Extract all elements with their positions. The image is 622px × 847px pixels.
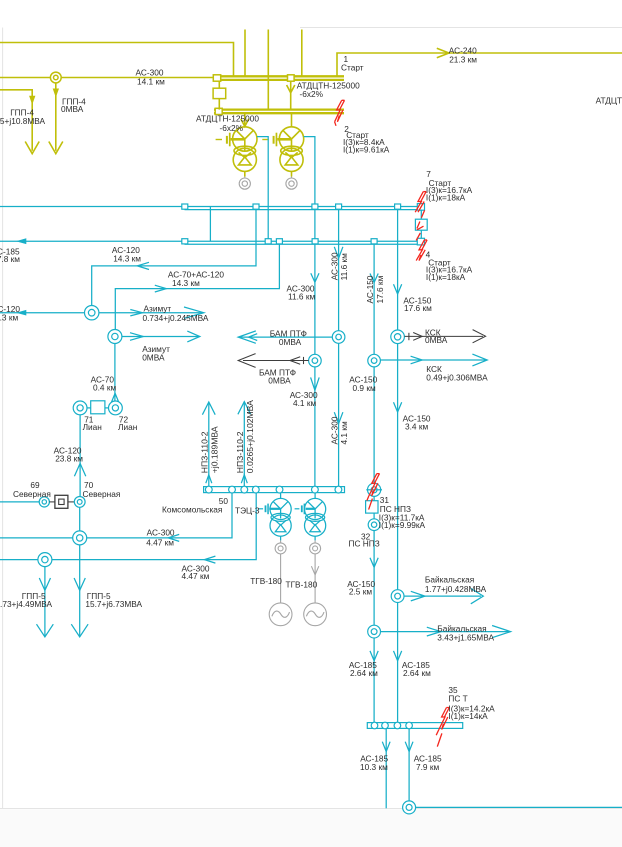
sheet frame border bottom: [0, 808, 622, 810]
svg-text:15.7+j6.73МВА: 15.7+j6.73МВА: [85, 599, 142, 609]
wire AC-150 2.5 / AC-185 2.64 line down to PS T bus: [373, 531, 375, 723]
wire AC-120 x.3 from left edge: [0, 312, 85, 314]
node squares on cyan bus 2: [182, 239, 188, 244]
wire cyan drop from U1 to cyan bus 2: [257, 137, 268, 240]
arrowhead AC-300 4.47-2 left: [204, 556, 215, 563]
svg-text:7.3 км: 7.3 км: [0, 313, 18, 323]
wire AC-300 4.47 line 2 from TEC bus down-left: [0, 493, 256, 560]
wire tie between cyan buses: [209, 207, 211, 242]
node tap Baikalskaya-1 (donut): [391, 590, 404, 603]
fault bolt through breaker box (dashed): [416, 210, 424, 240]
wire AC-150 17.6/3.4 line 2 from bus1 down: [397, 210, 399, 330]
svg-text:ТЭЦ-3: ТЭЦ-3: [235, 505, 260, 515]
load arrow NPZ-110-2 +j0.189MVA up: [208, 403, 210, 487]
switch box between 69 and 70 (black): [49, 501, 54, 503]
svg-text:17.6 км: 17.6 км: [375, 275, 385, 303]
node tap Azimut (donut): [85, 306, 99, 320]
svg-text:0МВА: 0МВА: [279, 337, 302, 347]
svg-text:4.47 км: 4.47 км: [182, 571, 210, 581]
svg-text:+j0.189МВА: +j0.189МВА: [209, 426, 219, 473]
load arrow BAM PTF 0MVA (black, left): [243, 360, 309, 362]
load arrow GPP-5 15.7+j6.73MVA: [79, 545, 81, 637]
busbar Komsomolskaya TEC-3: [204, 487, 345, 493]
node square on bus B left: [215, 108, 222, 114]
svg-text:7.9 км: 7.9 км: [416, 762, 439, 772]
wire AC-185 down from Baikalskaya-1 tap to PS T bus: [397, 603, 399, 723]
wire gray to generator G2 with arrow: [314, 554, 316, 603]
sheet frame bottom strip: [0, 810, 622, 847]
arrowhead AC-185 2.64-1 down: [370, 651, 378, 661]
svg-text:0.4 км: 0.4 км: [93, 383, 116, 393]
node tap KSK cyan (donut): [368, 354, 381, 367]
svg-text:4.1 км: 4.1 км: [293, 398, 316, 408]
svg-text:2.64 км: 2.64 км: [350, 668, 378, 678]
wire AC-70+AC-120 from bus2 down-left to Azimut-2 node: [115, 244, 279, 329]
wire gray to generator G1: [280, 554, 282, 603]
arrowhead AC-120 23.8 up: [74, 463, 85, 476]
node 70 Severnaya (donut): [74, 497, 85, 508]
node tap Azimut 0MVA (donut): [108, 330, 122, 344]
arrowhead AC-150 17.6-1 down: [370, 274, 378, 283]
arrowhead AC-300 11.6-1 down: [311, 273, 319, 282]
wire yellow line y77 from left edge: [0, 77, 215, 79]
fault bolt 31 at PS NPZ: [369, 474, 377, 496]
arrowhead AC-300 4.1-1 down: [311, 377, 320, 390]
node tap KSK black (donut): [391, 330, 405, 344]
svg-text:Лиан: Лиан: [83, 422, 102, 432]
transformer T2 TEC (TGV-180): [314, 493, 316, 499]
load arrow KSK 0MVA (black, right): [405, 335, 483, 337]
load arrow Baikalskaya 3.43+j1.65MVA (right): [381, 631, 511, 633]
busbar yellow 220kV bus A: [214, 75, 344, 77]
svg-text:21.3 км: 21.3 км: [449, 54, 477, 64]
busbar cyan 110kV bus 1: [0, 206, 424, 208]
svg-text:Старт: Старт: [341, 63, 364, 73]
fault bolt 7 on bus 1 right end: [415, 192, 423, 213]
wire feed T1 from bus B with arrow: [244, 113, 246, 127]
load arrow AC-185 7.9 down to node: [408, 728, 410, 801]
svg-text:I(1)к=18кА: I(1)к=18кА: [426, 272, 466, 282]
svg-text:-6х2%: -6х2%: [300, 89, 324, 99]
svg-text:АС-300: АС-300: [330, 416, 340, 444]
arrowhead AC-150 2.5 down: [370, 558, 378, 568]
wire yellow vertical feeder 1: [244, 30, 246, 77]
svg-text:4.47 км: 4.47 км: [146, 537, 174, 547]
svg-text:0.0265+j0.102МВА: 0.0265+j0.102МВА: [245, 400, 255, 473]
svg-text:АС-150: АС-150: [365, 275, 375, 303]
wire AC-70 0.4 from Azimut node down to node 72: [114, 344, 116, 402]
svg-text:14.1 км: 14.1 км: [137, 76, 165, 86]
svg-text:I(1)к=18кА: I(1)к=18кА: [426, 193, 466, 203]
node circles on PS T bus: [371, 722, 378, 729]
node 31 PS NPZ (donut with bar): [368, 483, 381, 496]
reactor tie between yellow buses: [218, 81, 220, 88]
busbar yellow 110kV bus B: [214, 108, 344, 110]
svg-text:0МВА: 0МВА: [142, 352, 165, 362]
ground neutral T2 TEC: [314, 536, 316, 540]
svg-text:-6х2%: -6х2%: [220, 123, 244, 133]
svg-text:Северная: Северная: [13, 489, 51, 499]
load arrow BAM PTF 0MVA (cyan, left): [239, 336, 332, 338]
autotransformer U1 ATDCTN-125000 (left): [216, 127, 257, 177]
breaker box PS NPZ: [373, 496, 375, 500]
svg-text:НПЗ-110-2: НПЗ-110-2: [200, 431, 210, 473]
node squares on cyan bus 1: [182, 204, 188, 209]
generator G1 TGV-180: [269, 603, 292, 626]
node tap GPP-5 line2 (donut): [38, 553, 52, 567]
wire AC-300 4.47 line 1 from TEC bus down-left: [0, 493, 232, 538]
load arrow Baikalskaya 1.77+j0.428MVA (right): [404, 595, 481, 597]
load arrow NPZ-110-2 0.0265+j0.102MVA up: [243, 402, 245, 487]
fault bolt 2 on yellow bus B: [335, 100, 342, 122]
wire yellow top-left horizontal with corner down to bus 1: [0, 43, 234, 77]
wire cyan drop from U2 continuing down to TEC bus (AC-300 line 1): [304, 137, 315, 487]
svg-text:17.6 км: 17.6 км: [404, 303, 432, 313]
wire yellow vertical feeder 3: [301, 30, 303, 77]
fault bolt 35 at PS T bus: [439, 708, 447, 730]
svg-text:ТГВ-180: ТГВ-180: [286, 579, 318, 589]
breaker box between bus1 and bus2 right end: [420, 210, 422, 220]
svg-text:Лиан: Лиан: [118, 422, 137, 432]
fault bolt 4 below bus 2 right end: [416, 240, 424, 261]
load arrow Azimut 0MVA: [122, 336, 199, 338]
node tap BAM PTF cyan (donut): [332, 331, 345, 344]
svg-text:4.1 км: 4.1 км: [339, 421, 349, 444]
arrowhead AC-185 7.8 left edge: [16, 238, 26, 244]
sheet frame border top: [300, 27, 622, 29]
svg-text:0.9 км: 0.9 км: [353, 383, 376, 393]
svg-text:I(1)к=9.61кА: I(1)к=9.61кА: [343, 145, 390, 155]
svg-text:I(1)к=9.99кА: I(1)к=9.99кА: [379, 520, 426, 530]
wire yellow vertical feeder 2 (to bus 2): [267, 30, 269, 110]
node square on bus A left: [213, 75, 220, 81]
svg-text:6.5+j10.8МВА: 6.5+j10.8МВА: [0, 116, 46, 126]
sheet frame border left: [2, 28, 4, 809]
svg-text:ПС НПЗ: ПС НПЗ: [349, 539, 380, 549]
ground neutral of U1 (gray donut): [244, 177, 246, 179]
svg-text:0МВА: 0МВА: [268, 376, 291, 386]
autotransformer U2 ATDCTN-125000 (right): [262, 127, 303, 177]
node tap BAM PTF black (donut): [309, 354, 322, 367]
wire line AC-240 to node 1 Start: [337, 53, 622, 76]
arrowhead AC-120 14.3 (left): [137, 262, 149, 269]
load arrow KSK 0.49+j0.306MVA (cyan, right): [380, 359, 486, 361]
svg-text:0МВА: 0МВА: [61, 104, 84, 114]
arrowhead AC-240 right: [437, 48, 449, 58]
wire AC-120 23.8 from node 71 down to node 70: [79, 415, 81, 497]
arrowhead AC-150 17.6-2 down: [394, 284, 402, 294]
svg-text:Азимут: Азимут: [144, 303, 172, 313]
transformer T1 TEC (TGV-180): [280, 493, 282, 499]
load arrow Azimut 0.734+j0.245MVA: [99, 312, 203, 314]
svg-text:Комсомольская: Комсомольская: [162, 505, 222, 515]
svg-text:НПЗ-110-2: НПЗ-110-2: [235, 431, 245, 473]
generator G2 TGV-180: [304, 603, 327, 626]
arrowhead AC-300 11.6-2 down: [334, 247, 343, 258]
breaker box between 71 and 72: [87, 407, 91, 409]
svg-text:ПС Т: ПС Т: [448, 693, 467, 703]
wire from node 70 down to tap on AC-300 4.47 line 1: [79, 507, 81, 531]
load arrow GPP-4 5+j10.8MVA from left edge: [0, 90, 32, 151]
arrowhead AC-120 x.3 left edge: [16, 310, 26, 316]
svg-text:2.5 км: 2.5 км: [349, 587, 372, 597]
svg-text:5.73+j4.49МВА: 5.73+j4.49МВА: [0, 599, 53, 609]
wire Severnaya from left edge: [0, 501, 39, 503]
svg-text:АС-300: АС-300: [330, 252, 340, 280]
busbar PS T (bottom): [367, 723, 462, 729]
wire AC-120 14.3 from bus1 down-left to Azimut node: [92, 210, 256, 306]
wire bottom horizontal to right edge: [416, 806, 622, 808]
node tap GPP-5 line1 (donut): [73, 531, 87, 545]
arrowhead AC-70 up: [110, 393, 121, 406]
svg-text:2.64 км: 2.64 км: [403, 668, 431, 678]
load arrow GPP-5 5.73+j4.49MVA: [44, 567, 46, 637]
arrowhead AC-300 4.47-1 left: [168, 534, 179, 541]
svg-text:3.43+j1.65МВА: 3.43+j1.65МВА: [437, 632, 494, 642]
load arrow AC-185 10.3 down: [385, 728, 387, 808]
svg-text:1.77+j0.428МВА: 1.77+j0.428МВА: [425, 584, 487, 594]
wire AC-150 17.6/0.9 line 1 from bus2 down to PS NPZ: [373, 244, 375, 483]
node 72 Lian (donut): [109, 401, 123, 415]
arrowhead AC-185 2.64-2 down: [394, 651, 402, 661]
svg-text:АТДЦТН-125000: АТДЦТН-125000: [196, 114, 259, 124]
svg-text:14.3 км: 14.3 км: [172, 278, 200, 288]
node bottom (donut): [403, 801, 416, 814]
svg-text:0.734+j0.245МВА: 0.734+j0.245МВА: [143, 313, 209, 323]
node square on bus A at tie: [288, 75, 295, 81]
wire AC-150 3.4 below KSK tap down to Baikalskaya-1 tap: [397, 344, 399, 590]
node tap Baikalskaya-2 (donut): [368, 625, 381, 638]
load arrow GPP-4 0MVA: [55, 83, 57, 151]
svg-text:АТДЦТ: АТДЦТ: [596, 95, 622, 105]
arrowhead AC-70+AC-120 (right): [155, 285, 167, 292]
svg-text:23.8 км: 23.8 км: [55, 454, 83, 464]
svg-text:ТГВ-180: ТГВ-180: [250, 576, 282, 586]
node 32 PS NPZ (donut): [368, 519, 380, 531]
svg-text:Байкальская: Байкальская: [425, 574, 474, 584]
ground neutral of U2 (gray donut): [291, 177, 293, 179]
node circles on TEC bus: [205, 486, 212, 493]
svg-text:7.8 км: 7.8 км: [0, 254, 20, 264]
tie arrow ATDCTN-125000 between buses: [290, 81, 292, 110]
wire AC-300 11.6/4.1 line 2 from bus1 down to TEC bus: [338, 210, 340, 487]
svg-text:10.3 км: 10.3 км: [360, 762, 388, 772]
svg-text:0МВА: 0МВА: [425, 335, 448, 345]
ground neutral T1 TEC: [280, 536, 282, 540]
node 69 Severnaya (donut): [39, 497, 49, 507]
svg-text:11.6 км: 11.6 км: [288, 292, 315, 302]
wire feed T2 from bus B: [291, 113, 293, 127]
arrowhead AC-150 3.4 down: [394, 402, 402, 412]
busbar cyan 110kV bus 2: [0, 240, 421, 242]
svg-text:14.3 км: 14.3 км: [113, 254, 141, 264]
svg-text:3.4 км: 3.4 км: [405, 422, 428, 432]
node tap GPP-4 (donut on yellow line): [50, 72, 61, 83]
svg-text:Северная: Северная: [83, 489, 121, 499]
svg-text:I(1)к=14кА: I(1)к=14кА: [448, 711, 488, 721]
svg-text:0.49+j0.306МВА: 0.49+j0.306МВА: [426, 373, 488, 383]
node 71 Lian (donut): [73, 401, 87, 415]
arrowhead AC-300 4.1-2 down: [334, 412, 343, 423]
svg-text:АС-300: АС-300: [147, 528, 175, 538]
svg-text:11.6 км: 11.6 км: [339, 253, 349, 280]
